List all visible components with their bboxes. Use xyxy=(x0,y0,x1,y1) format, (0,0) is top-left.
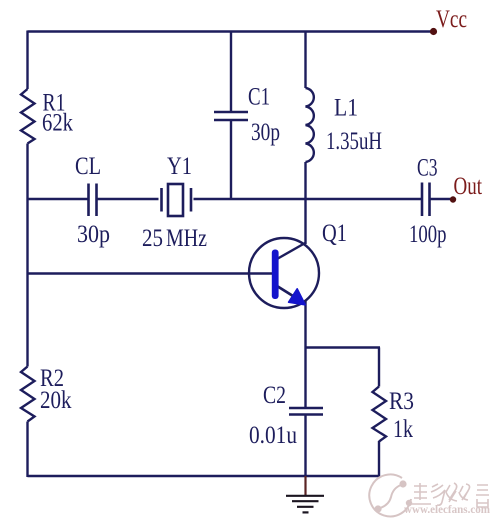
svg-text:www.elecfans.com: www.elecfans.com xyxy=(404,502,490,516)
wire row y199 left xyxy=(28,198,88,200)
svg-text:Q1: Q1 xyxy=(322,220,347,247)
wire C1 top xyxy=(230,32,232,112)
svg-text:R3: R3 xyxy=(389,388,414,415)
wire top rail xyxy=(28,30,434,32)
svg-text:Vcc: Vcc xyxy=(436,6,467,33)
svg-text:25: 25 xyxy=(142,225,163,252)
capacitor C3 xyxy=(422,183,430,217)
node Vcc dot xyxy=(430,28,437,35)
capacitor C1 xyxy=(214,112,248,120)
capacitor C2 xyxy=(289,408,323,415)
wire left rail lower xyxy=(26,422,28,478)
wire L1 bottom xyxy=(304,162,306,199)
watermark logo xyxy=(369,474,411,516)
svg-text:0.01u: 0.01u xyxy=(249,422,297,449)
resistor R2 xyxy=(21,367,35,422)
svg-text:L1: L1 xyxy=(334,95,358,122)
wire L1 top xyxy=(304,32,306,89)
svg-text:C2: C2 xyxy=(263,382,286,409)
transistor Q1 xyxy=(249,238,319,308)
watermark text xyxy=(411,483,489,507)
svg-text:62k: 62k xyxy=(42,110,73,137)
wire emitter xyxy=(304,301,306,407)
transistor Q1 emitter arrow xyxy=(289,289,306,305)
svg-text:C1: C1 xyxy=(248,84,270,111)
node Out dot xyxy=(450,196,456,202)
wire left rail upper xyxy=(26,31,28,90)
svg-text:Y1: Y1 xyxy=(167,153,192,180)
transistor Q1 base bar xyxy=(272,250,279,300)
svg-text:1.35uH: 1.35uH xyxy=(326,128,382,155)
resistor R3 xyxy=(373,387,387,442)
wire Y1 to C3 xyxy=(194,198,422,200)
wire C1 bottom xyxy=(230,121,232,199)
svg-text:CL: CL xyxy=(75,153,101,180)
svg-text:20k: 20k xyxy=(40,387,72,414)
wire collector xyxy=(304,199,306,244)
inductor L1 xyxy=(306,88,314,162)
svg-text:30p: 30p xyxy=(251,119,280,146)
wire base xyxy=(28,272,273,274)
wire CL to Y1 xyxy=(98,198,159,200)
wire C3 to Out xyxy=(431,198,453,200)
crystal Y1 xyxy=(162,184,192,216)
svg-text:30p: 30p xyxy=(77,221,110,248)
svg-text:Out: Out xyxy=(454,173,483,200)
wire bottom rail xyxy=(28,475,381,477)
capacitor CL xyxy=(89,184,97,217)
wire R3 top lead xyxy=(378,348,380,387)
svg-text:1k: 1k xyxy=(393,416,413,443)
svg-text:100p: 100p xyxy=(409,221,447,248)
wire branch to R3 xyxy=(306,346,381,348)
svg-text:C3: C3 xyxy=(417,155,438,182)
svg-text:MHz: MHz xyxy=(166,225,207,252)
wire R3 bottom xyxy=(378,441,380,477)
ground xyxy=(286,476,324,512)
resistor R1 xyxy=(21,89,35,144)
wire left rail middle xyxy=(26,144,28,367)
wire C2 bottom xyxy=(304,416,306,477)
